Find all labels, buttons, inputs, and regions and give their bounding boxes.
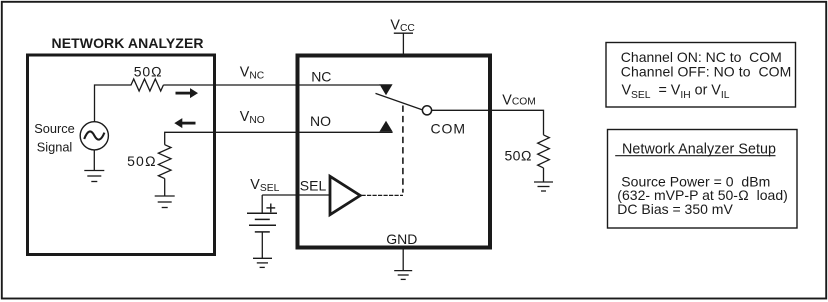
network analyzer enclosure box: [28, 55, 215, 255]
resistor 50 ohm load (COM): [538, 135, 550, 168]
resistor 50 ohm shunt (NO path): [158, 145, 171, 179]
switch pole circle: [422, 106, 431, 115]
wire VSEL source down to battery: [261, 195, 263, 213]
note box channel states: [606, 43, 796, 108]
wire GND pin: [402, 250, 404, 271]
wire shunt resistor to ground: [164, 179, 166, 196]
wire source top to series resistor: [95, 85, 132, 122]
switch NO contact (filled up triangle): [379, 121, 392, 132]
note box network analyzer setup: [608, 130, 798, 229]
svg-text:50Ω: 50Ω: [134, 64, 162, 80]
svg-text:Channel OFF: NO to COM: Channel OFF: NO to COM: [621, 64, 792, 80]
svg-text:Network Analyzer Setup: Network Analyzer Setup: [622, 141, 776, 157]
ground (NO shunt resistor): [155, 196, 175, 208]
source signal AC source: [80, 122, 108, 150]
ground (COM load): [534, 182, 553, 191]
switch NC contact (filled down triangle): [379, 84, 392, 95]
arrow NC signal direction: [176, 88, 199, 98]
ground (GND pin): [394, 271, 412, 280]
wire NC net to switch contact: [163, 84, 380, 86]
wire battery to ground: [261, 232, 263, 258]
svg-text:50Ω: 50Ω: [505, 148, 532, 164]
switch IC package box: [298, 56, 491, 248]
svg-text:SEL: SEL: [300, 178, 327, 194]
battery V1 (SEL bias): [247, 213, 277, 232]
svg-text:Source: Source: [34, 121, 75, 136]
svg-text:Signal: Signal: [37, 139, 73, 154]
wire COM output: [432, 110, 544, 135]
wire NO net to shunt resistor: [165, 132, 393, 144]
note title Network Analyzer Setup: [615, 141, 776, 157]
arrow NO signal direction: [174, 118, 195, 128]
switch lever arm: [376, 93, 423, 110]
dashed link buffer to switch (horizontal): [362, 194, 404, 196]
wire source bottom to ground: [93, 150, 95, 171]
power VCC pin bar and wire: [394, 33, 413, 54]
buffer driver triangle: [330, 176, 360, 214]
battery plus label: [266, 204, 275, 213]
wire load resistor to ground: [543, 168, 545, 182]
svg-text:NC: NC: [311, 69, 331, 85]
svg-text:GND: GND: [386, 231, 417, 247]
wire SEL input: [262, 194, 329, 196]
svg-text:NETWORK ANALYZER: NETWORK ANALYZER: [52, 35, 204, 51]
svg-text:COM: COM: [431, 120, 466, 136]
ground (source signal): [84, 171, 104, 182]
svg-text:50Ω: 50Ω: [127, 153, 156, 169]
ground (battery): [253, 258, 272, 267]
resistor 50 ohm series (NC path): [131, 79, 163, 91]
dashed link to switch lever (vertical): [402, 106, 404, 193]
svg-text:NO: NO: [310, 113, 331, 129]
svg-text:DC Bias = 350 mV: DC Bias = 350 mV: [617, 201, 733, 217]
